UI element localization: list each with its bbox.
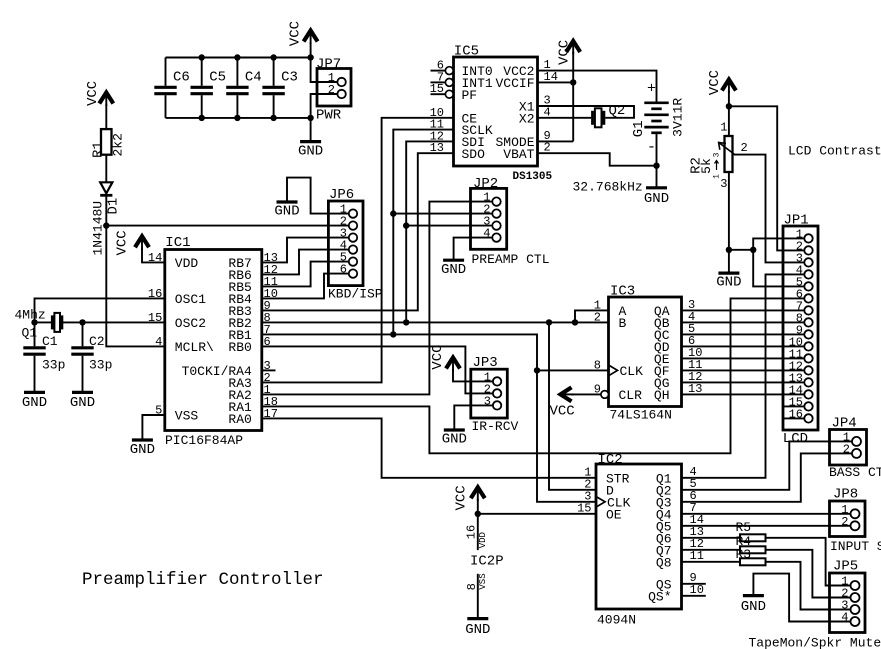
wire clock net to IC3 CLK — [537, 369, 609, 371]
pin IC1 RB4 (10) — [228, 287, 278, 307]
svg-text:4Mhz: 4Mhz — [15, 308, 46, 323]
svg-text:IC1: IC1 — [165, 235, 190, 251]
wire IC5 SDO to IC1 RB3 — [262, 153, 454, 310]
label 4Mhz (Q1 value) — [15, 308, 46, 323]
svg-text:R1: R1 — [90, 141, 106, 158]
svg-text:VSS: VSS — [478, 573, 488, 589]
svg-text:C6: C6 — [173, 70, 190, 86]
svg-text:GND: GND — [741, 599, 766, 615]
wire IC1 OSC2 to crystal — [63, 321, 165, 323]
pin label 2 (R2 wiper) — [741, 141, 748, 155]
pin JP1-3 — [796, 251, 813, 266]
pin JP2-2 — [483, 203, 500, 218]
label JP5 — [833, 559, 858, 575]
svg-text:QS*: QS* — [648, 589, 671, 604]
label R1 — [90, 141, 106, 158]
ground GND (IC1) — [130, 440, 155, 458]
capacitor C6 — [154, 58, 176, 118]
svg-text:GND: GND — [274, 204, 299, 220]
pin IC1 RB5 (11) — [228, 275, 278, 295]
pin JP1-15 — [783, 395, 813, 410]
svg-text:-: - — [647, 139, 656, 156]
wire VCC to IC3 CLR — [571, 393, 601, 395]
svg-text:3V11R: 3V11R — [671, 98, 686, 137]
wire IC1 RA0 to IC2 STR — [262, 418, 596, 477]
wire IC3 QE to JP1 — [682, 357, 805, 359]
node top rail junction — [199, 54, 205, 60]
capacitor C3 — [262, 58, 284, 118]
svg-text:D1: D1 — [106, 198, 122, 215]
pin JP4-1 — [843, 430, 861, 446]
node bottom rail junction — [307, 115, 313, 121]
IC U1 box (PIC16F84AP) — [165, 250, 262, 431]
pin IC1 OSC2 (15) — [148, 311, 206, 331]
svg-text:SDO: SDO — [462, 147, 486, 162]
svg-text:PWR: PWR — [316, 108, 342, 124]
pin IC3 QD (6) — [654, 334, 695, 355]
pin IC5 INT1 (7) with bubble — [431, 70, 493, 91]
pin IC1 MCLR\ (4) — [155, 335, 214, 355]
wire IC1 VSS to GND — [142, 415, 164, 440]
svg-text:C5: C5 — [209, 70, 226, 86]
power pins IC2P VSS — [465, 573, 488, 590]
svg-text:TapeMon/Spkr Mute: TapeMon/Spkr Mute — [749, 636, 881, 649]
wire IC2 Q1 to JP1 pin4 — [682, 274, 805, 477]
label C4 — [245, 70, 262, 86]
pin JP1-10 — [789, 335, 813, 350]
svg-text:JP5: JP5 — [833, 559, 858, 575]
svg-text:JP4: JP4 — [832, 416, 857, 432]
svg-text:R5: R5 — [736, 520, 752, 535]
pin IC1 RB2 (8) — [228, 311, 270, 331]
ground GND (R2) — [716, 273, 741, 290]
pin IC2 Q7 (12) — [656, 537, 704, 559]
svg-text:VCC: VCC — [454, 485, 470, 510]
label G1 — [631, 120, 647, 137]
connector JP4 box — [830, 430, 867, 466]
IC U2 box (4094N) — [596, 464, 682, 609]
wire VCC to R1 — [105, 104, 107, 130]
label LCD Contrast — [788, 144, 881, 159]
svg-text:1: 1 — [720, 121, 727, 135]
svg-text:JP2: JP2 — [473, 176, 498, 192]
pin label 1 (R2) — [720, 121, 727, 135]
pin IC5 VCC2 (1) — [503, 58, 550, 79]
pin IC2 Q4 (7) — [656, 501, 697, 523]
wire R5 to JP5 pin1 — [766, 538, 851, 586]
ground GND (JP6) — [274, 202, 299, 220]
wire JP7 pin2 to GND — [311, 94, 338, 141]
node top rail junction — [270, 54, 276, 60]
label IC2P — [470, 554, 504, 570]
svg-text:MCLR\: MCLR\ — [175, 340, 214, 355]
wire IC2 Q8 to R3 — [682, 561, 741, 563]
svg-text:3: 3 — [713, 152, 722, 157]
IC U3 box (74LS164N) — [609, 297, 682, 407]
svg-text:74LS164N: 74LS164N — [610, 408, 672, 423]
label R3 — [736, 547, 752, 562]
pin JP1-14 — [789, 383, 813, 398]
svg-text:JP3: JP3 — [473, 355, 498, 371]
svg-text:VDD: VDD — [175, 256, 199, 271]
svg-text:RB0: RB0 — [228, 340, 251, 355]
wire IC1 RB5 to JP6 pin5 — [262, 262, 349, 287]
label R2 — [689, 157, 705, 174]
pin JP6-2 — [340, 215, 357, 230]
pin JP5-2 — [841, 587, 859, 603]
pin IC3 QG (12) — [654, 370, 703, 391]
resistor R3 — [740, 558, 766, 565]
svg-text:IC2P: IC2P — [470, 554, 504, 570]
node top rail junction — [234, 54, 240, 60]
svg-text:2: 2 — [841, 515, 848, 529]
svg-text:GND: GND — [130, 442, 155, 458]
svg-text:C4: C4 — [245, 70, 262, 86]
connector JP3 box — [471, 369, 508, 418]
pin IC2 Q6 (13) — [656, 525, 704, 547]
pin IC1 T0CKI/RA4 (3) — [182, 359, 271, 379]
power net VCC symbol (R2) — [707, 70, 736, 95]
svg-text:VCC: VCC — [288, 21, 304, 46]
label C5 — [209, 70, 226, 86]
wire IC5 CE to IC1 RA3 — [262, 118, 454, 383]
pin JP6-4 — [340, 239, 357, 254]
wire IC1 OSC1 to crystal — [35, 298, 165, 322]
pin JP2-4 — [483, 227, 500, 242]
label 32.768kHz (Q2 value) — [573, 180, 643, 195]
svg-text:JP6: JP6 — [329, 187, 354, 203]
pin IC1 RB6 (12) — [228, 263, 278, 283]
power net VCC symbol (JP3) — [430, 344, 460, 371]
battery G1 — [644, 103, 668, 133]
svg-text:8: 8 — [594, 358, 601, 372]
svg-text:VCC: VCC — [85, 81, 101, 106]
svg-text:GND: GND — [442, 431, 467, 447]
pin IC2 Q3 (6) — [656, 489, 697, 511]
wire R3 to JP5 pin3 — [766, 562, 851, 610]
ground GND (JP5) — [741, 596, 766, 615]
label PREAMP CTL (JP2 value) — [472, 252, 550, 267]
pin IC2 CLK (3) — [584, 489, 630, 510]
wire IC5 SMODE stub — [538, 140, 574, 142]
node JP2 pin3 tap — [403, 222, 409, 228]
crystal Q2 — [593, 108, 604, 127]
pin IC1 T0CKI stub — [262, 369, 276, 371]
pin JP1-1 — [796, 227, 813, 242]
svg-text:32.768kHz: 32.768kHz — [573, 180, 643, 195]
svg-text:GND: GND — [70, 395, 95, 411]
label INPUT SEL (JP8 value) — [830, 539, 881, 554]
label BASS CTL (JP4 value) — [829, 465, 881, 480]
pin IC5 INT0 (6) with bubble — [431, 59, 493, 80]
pin IC2 STR (1) — [584, 465, 629, 486]
pin JP6-3 — [340, 227, 357, 242]
svg-text:2: 2 — [741, 141, 748, 155]
svg-text:CLK: CLK — [620, 364, 644, 379]
pin IC1 RB1 (7) — [228, 323, 270, 343]
pin IC3 QA (3) — [654, 298, 695, 319]
pin IC2 Q1 (4) — [656, 465, 697, 487]
pin IC1 VSS (5) — [155, 404, 198, 424]
pin JP5-3 — [841, 599, 859, 615]
node JP1 gnd tee — [750, 247, 756, 253]
pin JP3-1 — [484, 370, 502, 385]
wire IC2 Q2 to JP4 pin1 — [682, 441, 853, 489]
label C6 — [173, 70, 190, 86]
power pins IC2P labels — [464, 525, 488, 549]
node SCLK tap — [390, 331, 396, 337]
node IC3 CLK tap — [534, 367, 540, 373]
label JP7 — [316, 57, 341, 73]
power net VCC symbol (R1 top) — [85, 81, 113, 106]
wire VCC stem to IC2P VDD — [477, 499, 479, 551]
wire VCC junction to JP1 pin2 — [729, 106, 804, 250]
svg-text:2: 2 — [594, 310, 601, 324]
svg-text:C1: C1 — [42, 334, 58, 349]
svg-text:4: 4 — [155, 335, 162, 349]
svg-text:LCD Contrast: LCD Contrast — [788, 144, 881, 159]
pin IC5 CE (10) — [430, 106, 478, 127]
crystal Q1 (4Mhz) — [52, 313, 62, 332]
label Q2 — [609, 103, 626, 119]
pin JP1-8 — [796, 311, 813, 326]
svg-text:3: 3 — [584, 489, 591, 503]
wire IC5 X1 to crystal Q2 — [538, 106, 635, 118]
pin JP1-12 — [789, 359, 813, 374]
node battery minus junction — [653, 163, 659, 169]
pin IC5 VCCIF (14) — [495, 70, 557, 91]
pin IC5 SDO (13) — [430, 141, 486, 162]
pin JP1-6 — [796, 287, 813, 302]
wire IC5 VCC2 to battery + — [538, 71, 657, 103]
label LCD (JP1 value) — [783, 431, 808, 447]
node IC2 D tap — [546, 319, 552, 325]
label - (G1) — [647, 139, 656, 156]
wire IC1 RB7 to JP6 pin3 — [262, 238, 349, 263]
pin IC1 VDD (14) — [148, 251, 199, 271]
pin IC3 QB (4) — [654, 310, 695, 331]
svg-text:VCC: VCC — [557, 40, 573, 65]
pin IC3 CLR (9) with bubble — [594, 382, 642, 403]
connector JP2 box — [471, 188, 507, 249]
svg-text:OSC1: OSC1 — [175, 292, 206, 307]
wire JP6 pin1 to GND — [287, 178, 349, 214]
power net VCC symbol (IC1 VDD) — [115, 230, 149, 255]
wire D1 to MCLR junction — [105, 195, 107, 225]
pin IC5 PF (15) with bubble — [430, 82, 478, 103]
svg-text:15: 15 — [430, 82, 444, 96]
svg-text:Q2: Q2 — [609, 103, 626, 119]
wire JP5 pin4 to GND — [753, 574, 850, 622]
svg-text:KBD/ISP: KBD/ISP — [328, 287, 383, 302]
wire VCC stem to SMODE — [572, 52, 574, 141]
svg-text:VCC: VCC — [550, 404, 575, 420]
pin JP1-9 — [796, 323, 813, 338]
svg-text:GND: GND — [644, 191, 669, 207]
svg-text:B: B — [619, 316, 627, 331]
wire IC2 Q6 to R5 — [682, 537, 741, 539]
wire gnd junction to JP1 gnd tee — [729, 249, 753, 251]
svg-text:BASS CTL: BASS CTL — [829, 465, 881, 480]
svg-text:C2: C2 — [89, 334, 105, 349]
svg-text:IC2: IC2 — [598, 452, 623, 468]
svg-text:GND: GND — [465, 622, 490, 638]
IC U5 box (DS1305) — [454, 57, 538, 166]
power net VCC symbol (JP7) — [288, 21, 318, 46]
svg-text:2: 2 — [843, 442, 850, 456]
wire R2 wiper to JP1 pin3 — [734, 155, 805, 263]
label C1 — [42, 334, 58, 349]
power net VCC symbol (IC5) — [557, 40, 581, 65]
connector JP5 box — [830, 573, 866, 633]
svg-text:C3: C3 — [281, 70, 298, 86]
pin IC5 SCLK (11) — [430, 118, 493, 139]
pin JP8-1 — [841, 503, 859, 519]
svg-text:VBAT: VBAT — [503, 147, 534, 162]
svg-text:IC3: IC3 — [610, 283, 635, 299]
svg-text:OSC2: OSC2 — [175, 316, 206, 331]
pin JP1-5 — [796, 275, 813, 290]
svg-text:LCD: LCD — [783, 431, 808, 447]
svg-text:CLK: CLK — [607, 495, 631, 510]
wire IC5 VBAT to battery - — [538, 153, 657, 166]
svg-text:VSS: VSS — [175, 409, 199, 424]
label JP3 — [473, 355, 498, 371]
wire IC2P VSS to GND — [477, 574, 479, 619]
pin label 3 (R2) — [720, 177, 727, 191]
svg-text:11: 11 — [690, 549, 704, 563]
pin IC5 SMODE (9) — [495, 129, 550, 150]
capacitor C1 — [23, 322, 45, 392]
pin IC3 QF (11) — [654, 358, 703, 379]
label R5 — [736, 520, 752, 535]
node bottom rail junction — [199, 115, 205, 121]
node JP2 pin2 tap — [390, 210, 396, 216]
svg-text:JP1: JP1 — [784, 213, 809, 229]
svg-text:IR-RCV: IR-RCV — [472, 419, 519, 434]
connector JP7 — [317, 69, 351, 107]
svg-text:GND: GND — [22, 395, 47, 411]
svg-text:1N4148U: 1N4148U — [90, 201, 105, 256]
label 33p (C2 value) — [89, 358, 112, 373]
label IC3 — [610, 283, 635, 299]
connector JP8 box — [830, 501, 866, 537]
pin IC1 RA2 (1) — [228, 383, 270, 403]
pin JP1-13 — [789, 371, 813, 386]
capacitor C4 — [226, 58, 248, 118]
svg-text:R3: R3 — [736, 547, 752, 562]
ground GND (G1) — [644, 188, 669, 207]
resistor R1 — [101, 129, 112, 155]
wire IC1 RA2 to JP2 pin1 — [262, 202, 493, 395]
node R2 gnd junction — [726, 247, 732, 253]
label KBD/ISP (JP6 value) — [328, 287, 383, 302]
wire IC2 Q5 to JP8 pin2 — [682, 525, 851, 527]
label 2k2 (R1 value) — [111, 133, 126, 156]
pin JP3-2 — [484, 382, 502, 397]
svg-text:33p: 33p — [42, 358, 65, 373]
wire IC3 QD to JP1 — [682, 345, 805, 347]
svg-text:IC5: IC5 — [454, 44, 479, 60]
pin IC1 RA3 (2) — [228, 371, 270, 391]
wire VCC to R2 pin1 — [728, 91, 730, 136]
svg-text:1: 1 — [713, 174, 722, 179]
svg-text:4094N: 4094N — [597, 613, 636, 628]
pin IC2 D (2) — [584, 477, 614, 498]
wire OE junction to IC2 OE — [478, 513, 596, 515]
capacitor C5 — [191, 58, 213, 118]
capacitor C2 — [71, 322, 93, 392]
wire IC1 RB2 to IC3 B (data net) — [262, 321, 609, 323]
pin JP3-3 — [484, 394, 502, 409]
svg-text:VCC: VCC — [707, 70, 723, 95]
node bottom rail junction — [270, 115, 276, 121]
pin IC5 SDI (12) — [430, 129, 485, 150]
node MCLR junction — [103, 222, 109, 228]
pin IC1 OSC1 (16) — [148, 287, 206, 307]
svg-text:CLR: CLR — [619, 388, 643, 403]
svg-text:QH: QH — [654, 388, 670, 403]
wire VCC to IC1 VDD — [142, 248, 165, 263]
pin JP5-1 — [841, 575, 859, 591]
svg-text:10: 10 — [690, 583, 704, 597]
svg-text:VDD: VDD — [478, 532, 488, 548]
pin IC5 VBAT (2) — [503, 141, 550, 162]
connector JP6 box — [328, 201, 363, 286]
potentiometer R2 (5k trimmer) — [725, 136, 733, 172]
label IC2 — [598, 452, 623, 468]
label TapeMon/Spkr Mute (JP5 value) — [749, 636, 881, 649]
label DS1305 (value) — [513, 171, 553, 183]
label C3 — [281, 70, 298, 86]
svg-text:G1: G1 — [631, 120, 647, 137]
pin IC3 CLK (8) — [594, 358, 643, 379]
label JP2 — [473, 176, 498, 192]
label IR-RCV (JP3 value) — [472, 419, 519, 434]
label C2 — [89, 334, 105, 349]
pin JP1-7 — [796, 299, 813, 314]
wire IC5 X2 to crystal Q2 — [538, 117, 592, 119]
svg-text:DS1305: DS1305 — [513, 171, 553, 183]
label IC1 — [165, 235, 190, 251]
pin IC2 QS* (10) — [648, 583, 706, 605]
label 1N4148U (D1 value) — [90, 201, 105, 256]
ground GND (JP2) — [441, 260, 466, 278]
pin JP1-11 — [789, 347, 813, 362]
wire R2 pin3 to GND — [728, 172, 730, 273]
pin IC1 RA1 (18) — [228, 395, 278, 415]
pin JP1-4 — [796, 263, 813, 278]
label 33p (C1 value) — [42, 358, 65, 373]
label 5k (R2 value) — [699, 158, 714, 174]
wire IC2 Q7 to R4 — [682, 549, 741, 551]
label + (G1) — [647, 81, 656, 98]
label JP1 — [784, 213, 809, 229]
wire JP3 pin3 to GND — [454, 405, 493, 430]
ground GND (JP3) — [442, 430, 467, 447]
label D1 — [106, 198, 122, 215]
wire crystal left stub — [35, 321, 52, 323]
resistor R5 — [740, 534, 766, 541]
trimmer arrow (R2 wiper) — [719, 142, 735, 154]
wire R4 to JP5 pin2 — [766, 550, 851, 598]
svg-text:5k: 5k — [699, 158, 714, 174]
resistor R4 — [740, 546, 766, 553]
label IC5 — [454, 44, 479, 60]
pin JP2-1 — [483, 191, 500, 206]
pin IC1 RB3 (9) — [228, 299, 270, 319]
wire IC5 VCCIF to VCC — [538, 81, 574, 83]
